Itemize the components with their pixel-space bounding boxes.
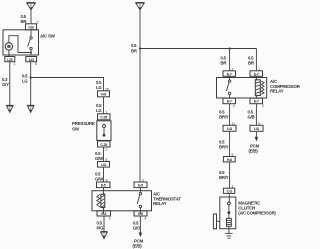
svg-text:E-5: E-5 [138,212,143,216]
svg-text:4: 4 [145,216,147,220]
svg-text:RELAY: RELAY [153,201,167,206]
svg-text:I-41: I-41 [254,127,259,131]
A/C compressor relay box [217,78,267,99]
wire 0.5 G/B to I-41 [255,104,257,126]
svg-text:G/W: G/W [95,177,104,182]
wire 0.5 P/G to ground [103,216,105,232]
node at center [139,47,141,49]
svg-text:(A/C COMPRESSOR): (A/C COMPRESSOR) [238,211,276,216]
connector I-23 (pin 6, bottom right of A/C SW) [26,57,37,62]
clutch coil [227,218,232,226]
svg-text:2: 2 [106,148,108,152]
wire 0.5 LG down from pin 6 [30,62,32,106]
svg-text:RELAY: RELAY [270,89,284,94]
clutch wire [228,205,230,219]
relay coil (thermostat relay) [97,188,105,214]
svg-text:SW: SW [72,126,80,131]
svg-text:C-3: C-3 [227,190,232,194]
svg-text:1: 1 [14,62,16,66]
connector C-25 (bottom) [98,141,111,147]
switch in A/C SW [28,30,33,55]
relay contact (thermostat relay) [137,188,141,214]
compressor coupling symbol [213,214,219,229]
svg-text:BR/Y: BR/Y [219,175,229,180]
main 0.5 BR wire (center vertical) [139,10,141,182]
clutch coil lead to ground [228,226,230,233]
chassis ground [225,233,233,238]
wire 0.5 G/W to I-41 [103,147,105,162]
connector I-41 (right area, left column) [223,125,236,131]
svg-text:I-23: I-23 [29,26,34,30]
connector I-23 (pin 1, bottom left of A/C SW) [5,57,15,62]
svg-text:D: D [103,233,105,237]
clutch junction dot [228,211,231,214]
svg-text:(E/B): (E/B) [133,244,143,249]
ground triangle (left) [6,105,13,112]
svg-text:I-41: I-41 [101,163,106,167]
svg-text:H-8: H-8 [101,93,106,97]
svg-text:C-25: C-25 [100,143,107,147]
svg-text:4: 4 [233,104,235,108]
pressure switch box [97,121,111,141]
wire 0.5 LG to C-25 [103,97,105,114]
svg-text:B: B [30,3,32,7]
svg-text:C-25: C-25 [100,116,107,120]
svg-text:E-5: E-5 [101,184,106,188]
svg-text:BR/Y: BR/Y [219,115,229,120]
svg-text:BR/Y: BR/Y [219,145,229,150]
svg-text:3: 3 [262,104,264,108]
svg-text:E-5: E-5 [101,212,106,216]
wire down to E-7 pin 1 [255,49,257,71]
svg-text:P/G: P/G [97,226,105,231]
svg-text:A/C SW: A/C SW [40,34,56,39]
wire 0.3 G/Y down to ground [9,62,11,106]
connector E-7 (bottom right) [250,98,263,104]
relay coil (compressor relay) [255,76,264,98]
node at right branch [229,47,231,49]
connector I-41 (middle) [98,162,110,168]
wire loop from lamp to switch output [9,36,31,53]
connector I-41 (far right) [250,125,263,131]
junction dot in A/C SW [30,52,32,54]
A/C SW box [3,30,39,55]
ground triangle (bottom middle) [101,232,108,239]
svg-text:I-41: I-41 [227,127,232,131]
svg-text:E-7: E-7 [254,72,259,76]
svg-text:E-5: E-5 [138,184,143,188]
svg-text:E-7: E-7 [227,100,232,104]
connector E-5 (bottom left of relay) [97,211,111,216]
clutch terminal [228,202,231,205]
svg-text:H-8: H-8 [227,158,232,162]
connector E-7 (top right) [250,71,263,77]
pressure switch contact [103,125,106,137]
svg-text:E: E [30,106,32,110]
arrow to PCM [139,233,143,238]
magnetic clutch box [220,197,236,229]
connector E-5 (top left of relay) [97,182,111,188]
svg-text:G/B: G/B [248,115,255,120]
connector E-7 (bottom left) [223,98,236,104]
svg-text:G/W: G/W [95,156,104,161]
ground triangle (right) [27,105,34,112]
wire 0.5 BR from triangle to I-23 [30,10,32,24]
wire 0.5 G/W to E-5 [103,167,105,182]
svg-text:B: B [139,3,141,7]
off-page connector triangle (top center) [136,3,145,10]
junction node [30,76,32,78]
svg-text:LG: LG [22,79,28,84]
svg-text:6: 6 [35,62,37,66]
svg-text:1: 1 [109,216,111,220]
wire 0.5 BR/Y to C-3 [229,162,231,188]
wire 0.5 BR/Y to I-41 [229,104,231,126]
connector C-25 (top) [98,114,111,120]
relay contact (compressor relay) [227,76,231,98]
svg-text:0.5: 0.5 [131,43,137,48]
svg-text:I-23: I-23 [29,58,34,62]
wire down to E-7 pin 2 [229,49,231,71]
A/C thermostat relay box [92,191,152,211]
svg-text:(E/B): (E/B) [249,149,259,154]
wire and arrow to PCM [255,131,257,137]
connector I-23 (top of A/C SW) [26,24,37,30]
connector H-8 [98,91,110,97]
svg-text:I-23: I-23 [7,58,12,62]
connector C-3 [223,188,234,193]
svg-text:E-7: E-7 [254,100,259,104]
svg-text:E: E [9,106,11,110]
svg-text:LG: LG [96,85,102,90]
svg-text:E-7: E-7 [227,72,232,76]
connector E-5 (bottom right of relay) [134,211,147,216]
wire 0.5 G/O to PCM [139,216,141,233]
wire into magnetic clutch [228,193,230,202]
connector H-8 (right area) [223,157,235,162]
lamp lead down [8,50,10,57]
svg-text:LG: LG [96,108,102,113]
svg-text:G/Y: G/Y [2,82,9,87]
connector E-7 (top left) [223,71,236,77]
off-page connector triangle (top left) [27,3,36,10]
connector E-5 (top right of relay) [134,182,147,188]
wire to compressor relay [140,48,256,50]
wire from junction to pressure switch column [31,78,104,91]
indicator lamp in A/C SW [5,43,12,50]
svg-text:G/O: G/O [133,226,141,231]
wire 0.5 BR/Y to H-8 [229,131,231,156]
